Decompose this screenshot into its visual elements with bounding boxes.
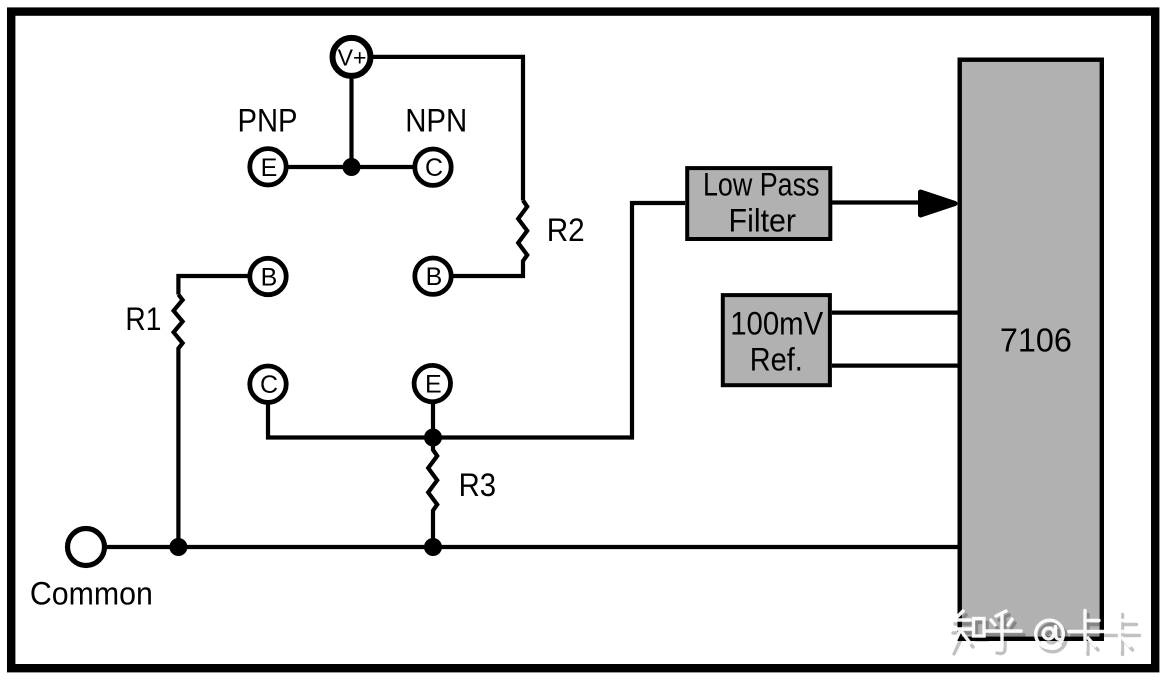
svg-text:Filter: Filter <box>729 203 797 239</box>
svg-text:C: C <box>425 154 443 182</box>
svg-text:V+: V+ <box>338 45 367 71</box>
svg-text:C: C <box>260 371 278 399</box>
svg-text:R3: R3 <box>459 467 497 503</box>
svg-text:PNP: PNP <box>238 103 298 139</box>
svg-text:100mV: 100mV <box>730 306 824 342</box>
svg-text:B: B <box>261 264 278 292</box>
svg-text:R2: R2 <box>547 212 585 248</box>
svg-text:E: E <box>425 371 442 399</box>
svg-text:B: B <box>426 263 443 291</box>
svg-text:R1: R1 <box>125 301 161 337</box>
svg-text:NPN: NPN <box>405 103 467 139</box>
svg-text:7106: 7106 <box>1000 322 1072 359</box>
svg-text:E: E <box>261 154 278 182</box>
svg-text:Common: Common <box>30 576 153 612</box>
svg-text:Low Pass: Low Pass <box>703 167 820 203</box>
svg-text:Ref.: Ref. <box>750 342 803 378</box>
